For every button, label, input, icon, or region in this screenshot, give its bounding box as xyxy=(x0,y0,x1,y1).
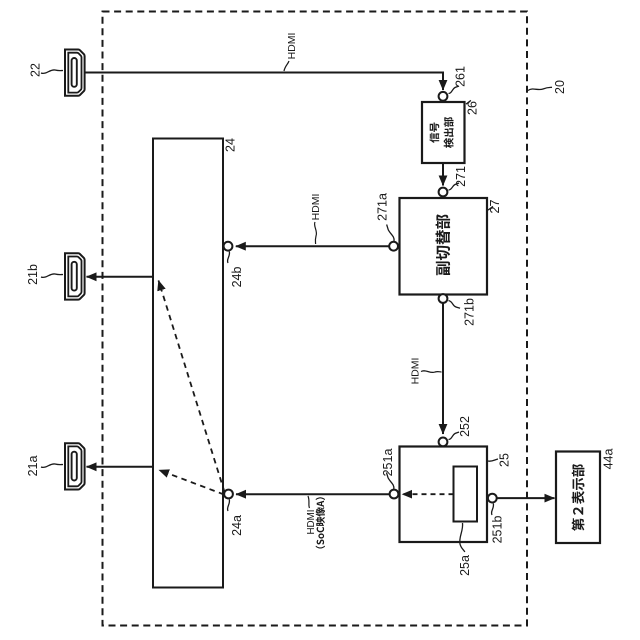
svg-text:21b: 21b xyxy=(26,264,40,285)
svg-text:HDMI: HDMI xyxy=(410,358,422,385)
wire node 271b to node 252 xyxy=(442,303,444,434)
node 24a xyxy=(224,490,233,499)
connector 21b xyxy=(65,253,85,299)
HDMI(SoC) label leader xyxy=(308,496,310,508)
node 251b xyxy=(488,494,497,503)
dashed route inside box 25 xyxy=(402,493,453,495)
label 251a leader xyxy=(387,473,394,490)
dashed route 24a to 21b port xyxy=(159,281,225,493)
wire box 24 to connector 21a xyxy=(87,466,154,468)
label 20 leader xyxy=(528,87,552,90)
dashed enclosure box 20 xyxy=(103,12,528,626)
svg-text:25: 25 xyxy=(498,453,512,467)
HDMI label leader (wire 24b) xyxy=(315,222,317,244)
dashed route 24a to 21a port xyxy=(159,470,224,495)
node 271 xyxy=(439,188,448,197)
label 261 leader xyxy=(449,86,460,94)
svg-text:22: 22 xyxy=(29,63,43,77)
svg-text:24: 24 xyxy=(224,138,238,152)
svg-text:271a: 271a xyxy=(376,193,390,221)
label 25 leader xyxy=(488,459,498,461)
label 271b leader xyxy=(449,301,461,309)
label 22 leader xyxy=(41,70,63,74)
node 251a xyxy=(390,490,399,499)
svg-text:26: 26 xyxy=(466,101,480,115)
wire box 26 to node 271 xyxy=(442,163,444,186)
wire node 251a to node 24a xyxy=(236,493,390,495)
svg-text:44a: 44a xyxy=(602,449,616,470)
connector 21a xyxy=(65,443,85,489)
node 271b xyxy=(439,294,448,303)
connector 22 xyxy=(65,50,85,96)
svg-text:24a: 24a xyxy=(230,515,244,536)
svg-text:271: 271 xyxy=(454,166,468,187)
svg-text:20: 20 xyxy=(553,80,567,94)
wire HDMI from connector 22 to node 261 xyxy=(86,73,444,91)
node 271a xyxy=(389,242,398,251)
label 27 leader xyxy=(488,207,493,211)
HDMI label leader (vertical wire) xyxy=(421,371,442,373)
label 24a leader xyxy=(227,500,229,512)
svg-text:27: 27 xyxy=(488,200,502,214)
box 27 sub switcher xyxy=(400,198,488,295)
svg-text:HDMI: HDMI xyxy=(306,509,317,534)
label 251b leader xyxy=(491,504,493,516)
HDMI label leader (top wire) xyxy=(284,61,289,71)
label 24b leader xyxy=(227,252,229,264)
node 252 xyxy=(439,438,448,447)
svg-text:271b: 271b xyxy=(463,298,477,326)
svg-text:21a: 21a xyxy=(26,456,40,477)
svg-text:HDMI: HDMI xyxy=(286,33,298,60)
label 271 leader xyxy=(449,183,460,190)
box 24 xyxy=(153,139,223,588)
label 252 leader xyxy=(449,432,460,440)
svg-text:251a: 251a xyxy=(381,449,395,477)
wire node 251b to box 44a xyxy=(497,497,555,499)
box 44a second display xyxy=(556,452,600,544)
wire node 271a to node 24b xyxy=(236,245,389,247)
label 26 leader xyxy=(466,101,471,105)
svg-text:24b: 24b xyxy=(230,267,244,288)
box 25 main switcher xyxy=(400,447,488,543)
box 26 signal detector xyxy=(422,102,465,163)
label 25a leader xyxy=(460,523,465,552)
wire box 24 to connector 21b xyxy=(87,276,154,278)
label 21b leader xyxy=(41,274,63,278)
svg-text:HDMI: HDMI xyxy=(310,194,322,221)
node 24b xyxy=(224,242,233,251)
label 271a leader xyxy=(387,225,394,242)
svg-text:251b: 251b xyxy=(491,516,505,544)
inner block 25a xyxy=(454,467,478,522)
node 261 xyxy=(439,92,448,101)
svg-text:25a: 25a xyxy=(458,555,472,576)
svg-text:261: 261 xyxy=(454,66,468,87)
label 21a leader xyxy=(41,464,63,468)
svg-text:252: 252 xyxy=(458,416,472,437)
